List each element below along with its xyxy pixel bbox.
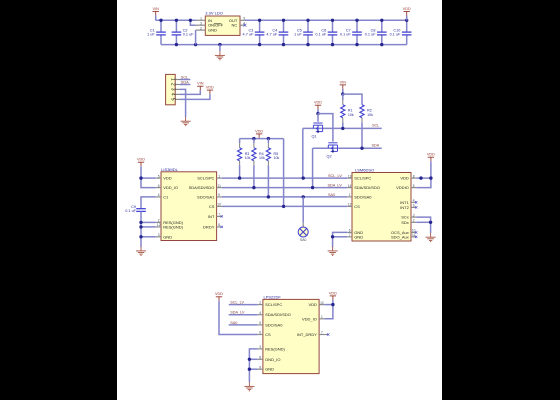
svg-text:4.7 uF: 4.7 uF: [243, 33, 254, 37]
wire bus SDO/SA1: [222, 196, 347, 198]
svg-text:VDD_IO: VDD_IO: [163, 185, 178, 190]
svg-text:VDDIO: VDDIO: [396, 185, 409, 190]
svg-text:NC: NC: [232, 23, 238, 28]
svg-text:DRDY: DRDY: [203, 224, 215, 229]
wire SCL line: [303, 127, 382, 129]
wires RES GND pins to vertical: [141, 221, 156, 223]
svg-text:0.1 uF: 0.1 uF: [365, 33, 376, 37]
wire SCL down to SCL_LV bus: [302, 128, 304, 178]
resistor R4 10k: [253, 139, 255, 144]
capacitor C6: [332, 20, 334, 32]
wire pin 5 to VDD: [180, 94, 210, 99]
svg-text:10k: 10k: [274, 156, 280, 160]
resistor R3 10k: [239, 139, 241, 144]
svg-text:VDD: VDD: [206, 86, 214, 90]
ground symbol connector: [181, 117, 191, 126]
wire top rail right: [245, 19, 407, 21]
svg-text:2: 2: [158, 219, 160, 223]
LSM6DSO pin 3 SCx: [411, 216, 416, 218]
svg-text:SDA/SDI/SDO: SDA/SDI/SDO: [354, 185, 380, 190]
LSM6DSO pin 7 GND: [347, 236, 352, 238]
svg-text:6: 6: [259, 331, 261, 335]
svg-text:4: 4: [413, 199, 415, 203]
LSM6DSO pin 11 SDO_Aux: [411, 236, 416, 238]
wire pin4 C1 to C9: [141, 197, 156, 207]
LSM6DSO pin 4 INT1: [411, 201, 416, 203]
wire VIN to R2 top: [343, 94, 362, 105]
junction dots top rail: [159, 19, 162, 22]
transistor Q1: [313, 123, 322, 132]
power flag VDD (LPS22DF CS): [216, 297, 222, 301]
junction VDD gate: [316, 112, 319, 115]
wire pin 3 to ground: [180, 89, 186, 117]
svg-text:VDD: VDD: [329, 291, 337, 295]
svg-text:5: 5: [259, 321, 261, 325]
svg-text:0.1 uF: 0.1 uF: [340, 33, 351, 37]
svg-text:9: 9: [413, 204, 415, 208]
wire bus SCL_LV: [222, 177, 347, 179]
wire LSM6DSO GND pins: [333, 232, 348, 247]
wire SCx SDx to ground: [416, 217, 430, 233]
svg-text:SDO_Aux: SDO_Aux: [391, 234, 409, 239]
resistor R5 10k: [267, 139, 269, 144]
svg-text:VDD: VDD: [427, 153, 435, 157]
connector pin 3: [175, 88, 180, 90]
svg-text:INT: INT: [208, 214, 215, 219]
regulator U4 3.3V LDO: [205, 16, 240, 35]
svg-text:1: 1: [349, 193, 351, 197]
svg-text:11: 11: [412, 233, 416, 237]
svg-text:VDD_IO: VDD_IO: [302, 316, 317, 321]
wire VDD to pin10 and VDD_IO: [324, 300, 333, 319]
svg-text:SA0: SA0: [230, 321, 237, 325]
wire bottom ground rail: [161, 44, 407, 46]
svg-text:VDD: VDD: [255, 129, 263, 133]
power flag VDD (connector): [207, 90, 213, 94]
svg-text:R5: R5: [274, 152, 279, 156]
LIS3MDL pin 3 GND: [156, 236, 161, 238]
svg-text:SDA: SDA: [181, 80, 189, 84]
svg-text:0.1 uF: 0.1 uF: [183, 33, 194, 37]
wire SA0 riser: [302, 197, 304, 223]
svg-text:SCL: SCL: [372, 124, 379, 128]
svg-text:3: 3: [169, 88, 175, 91]
svg-text:LIS3MDL: LIS3MDL: [161, 167, 178, 172]
svg-text:SDA/SDI/SDO: SDA/SDI/SDO: [265, 312, 291, 317]
LDO pin 4 NC: [240, 24, 245, 26]
power flag VIN (pullups): [340, 85, 346, 89]
svg-text:GND: GND: [208, 28, 217, 33]
svg-text:GND_IO: GND_IO: [265, 357, 280, 362]
LPS22DF pin 2 SCL/SPC: [258, 304, 263, 306]
svg-text:C1: C1: [163, 194, 169, 199]
wire pin 4 to VIN: [180, 90, 200, 94]
svg-text:SDA: SDA: [372, 144, 380, 148]
wire SDA down to SDA_LV bus: [312, 148, 314, 187]
svg-text:8: 8: [413, 174, 415, 178]
svg-text:SCL/SPC: SCL/SPC: [354, 176, 371, 181]
svg-text:SCL_LV: SCL_LV: [328, 174, 342, 178]
no-connect INT2: [415, 206, 417, 208]
svg-text:4: 4: [169, 93, 175, 96]
svg-text:SA0: SA0: [300, 238, 307, 242]
power flag VDD (LPS22DF right): [330, 296, 336, 300]
LPS22DF pin 8 GND_IO: [258, 358, 263, 360]
junction dots on buses: [238, 176, 241, 179]
svg-text:2: 2: [169, 83, 175, 86]
svg-text:CS: CS: [265, 332, 271, 337]
LPS22DF pin 1 VDD_IO: [319, 318, 324, 320]
svg-text:RES(GND): RES(GND): [163, 224, 183, 229]
svg-text:10k: 10k: [245, 156, 251, 160]
connector J1 5-pin header: [166, 74, 176, 104]
junction VIN pullups: [341, 92, 344, 95]
wire top rail left: [156, 19, 196, 21]
LPS22DF pin 7 INT_DRDY: [319, 334, 324, 336]
connector pin 2: [175, 84, 180, 86]
svg-text:R1: R1: [348, 109, 353, 113]
capacitor C10: [406, 20, 408, 32]
svg-text:LPS22DF: LPS22DF: [264, 294, 282, 299]
svg-text:3: 3: [200, 21, 202, 25]
svg-text:2: 2: [200, 26, 202, 30]
LPS22DF pin 4 SDA/SDI/SDO: [258, 314, 263, 316]
wire VDD to CS: [219, 301, 258, 335]
ground symbol LSM6DSO left: [328, 247, 338, 256]
power flag VIN (connector): [197, 86, 203, 90]
LIS3MDL pin 10 CS: [217, 205, 222, 207]
svg-text:SCL_LV: SCL_LV: [230, 301, 244, 305]
no-connect INT1: [415, 201, 417, 203]
transistor Q2: [328, 143, 337, 152]
svg-text:1: 1: [200, 17, 202, 21]
LPS22DF pin 3 RES(GND): [258, 348, 263, 350]
ground symbol top rail: [219, 45, 221, 52]
wire VDD to Q2 gate: [318, 114, 333, 142]
svg-text:R2: R2: [367, 109, 372, 113]
LIS3MDL pin 12 RES(GND): [156, 226, 161, 228]
svg-text:8: 8: [259, 356, 261, 360]
svg-text:VDD: VDD: [400, 176, 409, 181]
LIS3MDL pin 1 SCL/SPC: [217, 177, 222, 179]
connector pin 5: [175, 98, 180, 100]
svg-text:0.1 uF: 0.1 uF: [125, 209, 136, 213]
ground symbol LPS22DF: [244, 382, 254, 391]
svg-text:VDD: VDD: [215, 292, 223, 296]
svg-text:GND: GND: [265, 367, 274, 372]
svg-text:7: 7: [321, 331, 323, 335]
svg-text:3: 3: [413, 213, 415, 217]
LSM6DSO pin 2 SDx: [411, 221, 416, 223]
svg-text:SDx: SDx: [401, 220, 409, 225]
LDO pin 5 OUT: [240, 19, 245, 21]
svg-text:1: 1: [218, 174, 220, 178]
svg-text:1: 1: [321, 315, 323, 319]
wire SA0 (LPS22DF): [229, 324, 258, 326]
svg-text:7: 7: [218, 213, 220, 217]
svg-text:10: 10: [412, 229, 416, 233]
svg-text:GND: GND: [163, 234, 172, 239]
svg-text:Q2: Q2: [327, 154, 332, 158]
IC U2 LSM6DSO: [352, 173, 411, 242]
LPS22DF pin 5 SDO/SA0: [258, 324, 263, 326]
svg-text:6: 6: [158, 184, 160, 188]
wire SDA from pin 2: [180, 84, 190, 86]
capacitor C2: [175, 20, 177, 32]
resistor R1 10k: [342, 94, 344, 100]
svg-text:1 uF: 1 uF: [147, 33, 155, 37]
power flag VDD (gates): [315, 105, 321, 109]
LIS3MDL pin 6 VDD_IO: [156, 187, 161, 189]
IC U3 LPS22DF: [263, 299, 319, 373]
svg-text:4: 4: [158, 193, 160, 197]
svg-text:6: 6: [349, 229, 351, 233]
svg-text:2: 2: [413, 219, 415, 223]
svg-text:10k: 10k: [259, 156, 265, 160]
svg-text:4: 4: [259, 311, 261, 315]
svg-text:INT_DRDY: INT_DRDY: [297, 332, 317, 337]
LSM6DSO pin 14 SDA/SDI/SDO: [347, 187, 352, 189]
capacitor C1: [160, 20, 162, 32]
no-connect INT: [221, 215, 223, 217]
svg-text:LSM6DSO: LSM6DSO: [355, 167, 374, 172]
LSM6DSO pin 6 GND: [347, 231, 352, 233]
LPS22DF pin 10 VDD: [319, 304, 324, 306]
wire bus CS: [222, 205, 347, 207]
svg-text:12: 12: [157, 223, 161, 227]
wire VDD to pins 8 5: [416, 161, 431, 187]
wire bus SDA_LV: [222, 187, 347, 189]
capacitor C3: [259, 20, 261, 32]
LSM6DSO pin 12 CS: [347, 205, 352, 207]
jumper SA0 circle: [298, 227, 308, 237]
svg-text:10k: 10k: [367, 113, 373, 117]
LDO pin 2 GND: [196, 29, 206, 31]
svg-text:12: 12: [348, 203, 352, 207]
svg-text:5: 5: [169, 98, 175, 101]
wire VDD to Q1 gate: [317, 114, 319, 122]
power flag VDD (LSM6DSO): [428, 157, 434, 161]
junction R2-SDA: [360, 147, 363, 150]
wire RES GND_IO GND to ground: [249, 349, 257, 382]
svg-text:2: 2: [259, 301, 261, 305]
power flag VIN (top left): [153, 11, 159, 15]
svg-text:VDD: VDD: [314, 101, 322, 105]
power flag VDD (top right): [404, 12, 410, 16]
svg-text:SA0: SA0: [328, 193, 335, 197]
svg-text:SCL: SCL: [181, 75, 188, 79]
wire SDA line: [313, 147, 382, 149]
LIS3MDL pin 9 SDO/SA1: [217, 196, 222, 198]
svg-text:9: 9: [259, 365, 261, 369]
capacitor C5: [307, 20, 309, 32]
wire VDD rail for pullups: [240, 138, 284, 140]
LSM6DSO pin 13 SCL/SPC: [347, 177, 352, 179]
svg-text:5: 5: [413, 184, 415, 188]
svg-text:10: 10: [217, 203, 221, 207]
svg-text:CS: CS: [209, 204, 215, 209]
svg-text:7: 7: [349, 233, 351, 237]
svg-text:SDA/SDI/SDO: SDA/SDI/SDO: [189, 185, 215, 190]
wire ON/OFF jog to rail: [190, 20, 195, 25]
LSM6DSO pin 8 VDD: [411, 177, 416, 179]
svg-text:VIN: VIN: [197, 82, 204, 86]
power flag VDD (R3 R4 R5): [256, 134, 262, 138]
svg-text:RES(GND): RES(GND): [265, 346, 285, 351]
LIS3MDL pin 7 INT: [217, 215, 222, 217]
capacitor C9 0.1uF: [140, 207, 142, 209]
power flag VDD (LIS3MDL): [138, 162, 144, 166]
svg-text:VDD: VDD: [137, 158, 145, 162]
wire SCL from pin 1: [180, 79, 190, 81]
svg-text:9: 9: [218, 193, 220, 197]
svg-text:CS: CS: [354, 204, 360, 209]
svg-text:1: 1: [169, 78, 175, 81]
capacitor C8: [381, 20, 383, 32]
svg-text:14: 14: [348, 184, 352, 188]
LSM6DSO pin 5 VDDIO: [411, 187, 416, 189]
LIS3MDL pin 2 RES(GND): [156, 221, 161, 223]
svg-text:10k: 10k: [348, 113, 354, 117]
svg-text:0.1 uF: 0.1 uF: [390, 33, 401, 37]
junction R1-SCL: [341, 127, 344, 130]
svg-text:Q1: Q1: [312, 135, 317, 139]
svg-text:5: 5: [243, 17, 245, 21]
svg-text:GND: GND: [354, 234, 363, 239]
LIS3MDL pin 11 SDA/SDI/SDO: [217, 187, 222, 189]
ground symbol LIS3MDL: [136, 247, 146, 256]
svg-text:SDO/SA0: SDO/SA0: [265, 322, 283, 327]
LSM6DSO pin 1 SDO/SA0: [347, 196, 352, 198]
junction dots bottom rail: [175, 43, 178, 46]
svg-text:SDO/SA0: SDO/SA0: [354, 194, 372, 199]
LSM6DSO pin 9 INT2: [411, 206, 416, 208]
wire SCL_LV (LPS22DF): [229, 304, 258, 306]
wire VDD to pins 5 6: [141, 166, 156, 187]
svg-text:13: 13: [348, 174, 352, 178]
LDO pin 1 IN: [196, 19, 206, 21]
wire LDO GND down to rail: [195, 30, 197, 44]
svg-text:SDA_LV: SDA_LV: [230, 311, 245, 315]
LSM6DSO pin 10 OCS_Aux: [411, 231, 416, 233]
svg-text:SCL/SPC: SCL/SPC: [197, 176, 214, 181]
connector pin 4: [175, 93, 180, 95]
svg-text:8: 8: [218, 223, 220, 227]
svg-text:R3: R3: [245, 152, 250, 156]
svg-text:SDO/SA1: SDO/SA1: [197, 194, 215, 199]
svg-text:SDA_LV: SDA_LV: [328, 184, 343, 188]
capacitor C7: [356, 20, 358, 32]
svg-text:3: 3: [158, 233, 160, 237]
svg-text:0.1 uF: 0.1 uF: [315, 33, 326, 37]
svg-text:SCL/SPC: SCL/SPC: [265, 302, 282, 307]
LPS22DF pin 9 GND: [258, 368, 263, 370]
svg-text:5: 5: [158, 174, 160, 178]
svg-text:3.3V LDO: 3.3V LDO: [205, 11, 223, 16]
no-connect INT_DRDY: [324, 334, 328, 336]
LDO pin 3 ON/OFF: [196, 24, 206, 26]
wire VDD drop to CS line: [283, 139, 285, 207]
LIS3MDL pin 8 DRDY: [217, 226, 222, 228]
svg-text:VDD: VDD: [403, 7, 411, 11]
svg-text:1 uF: 1 uF: [294, 33, 302, 37]
svg-text:VIN: VIN: [340, 80, 347, 84]
capacitor C4: [283, 20, 285, 32]
svg-text:3: 3: [259, 345, 261, 349]
LIS3MDL pin 5 VDD: [156, 177, 161, 179]
ground symbol LSM6DSO right: [426, 233, 436, 242]
svg-text:VDD: VDD: [163, 176, 172, 181]
svg-text:VDD: VDD: [308, 302, 317, 307]
svg-text:4.7 uF: 4.7 uF: [266, 33, 277, 37]
svg-text:10: 10: [320, 301, 324, 305]
svg-text:VIN: VIN: [153, 7, 160, 11]
wire SDA_LV (LPS22DF): [229, 314, 258, 316]
no-connect SDO_Aux: [415, 236, 417, 238]
svg-text:INT2: INT2: [400, 205, 409, 210]
svg-text:11: 11: [218, 184, 222, 188]
LIS3MDL pin 4 C1: [156, 196, 161, 198]
LPS22DF pin 6 CS: [258, 334, 263, 336]
resistor R2 10k: [361, 104, 363, 106]
no-connect DRDY: [221, 226, 223, 228]
IC U1 LIS3MDL: [161, 172, 217, 241]
svg-text:R4: R4: [259, 152, 264, 156]
connector pin 1: [175, 79, 180, 81]
no-connect OCS_Aux: [415, 231, 417, 233]
